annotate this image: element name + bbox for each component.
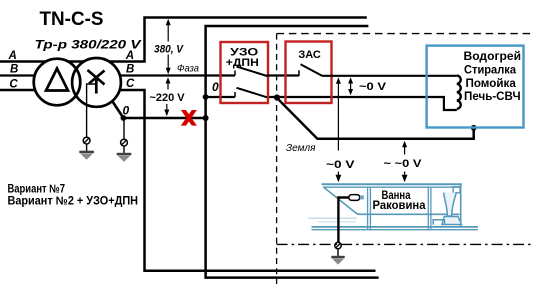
wire bonding from faucet down to earth [338, 198, 349, 243]
wire PEN bus: top run, vertical bus, bottom run [206, 26, 379, 278]
svg-text:Раковина: Раковина [373, 200, 427, 212]
ground electrode at transformer neutral [79, 137, 94, 160]
svg-text:380, V: 380, V [154, 43, 185, 55]
switch contact UZO phase pole [234, 71, 236, 76]
svg-text:~0 V: ~0 V [326, 159, 355, 171]
svg-text:Земля: Земля [286, 142, 316, 154]
appliance load box (blue) [427, 46, 524, 128]
svg-text:~ ~0 V: ~ ~0 V [384, 158, 423, 170]
load heater coil [457, 76, 461, 109]
bath tub left slant and bottom [324, 188, 460, 215]
breaker ZAS box [286, 42, 332, 104]
ground electrode at bath [331, 242, 344, 264]
svg-text:Вариант №2 + УЗО+ДПН: Вариант №2 + УЗО+ДПН [8, 195, 139, 207]
node: PE split junction dot [274, 94, 280, 100]
wire from 0 node down to second earth electrode [123, 118, 125, 139]
svg-text:Помойка: Помойка [466, 78, 517, 90]
ground electrode at 0 node [117, 139, 132, 162]
boundary dashed vertical (building entry) [276, 34, 278, 284]
wire transformer neutral to earth electrode [87, 84, 97, 137]
node: junction dot of diagonal and 0 line [121, 115, 127, 121]
drain trap pipe [433, 220, 444, 225]
wire PE conductor: diagonal down, earth run, up to chassis [277, 98, 474, 139]
wire N conductor from bus through UZO to load box [206, 96, 235, 98]
bathroom fixtures drawing (blue) [308, 184, 478, 230]
transformer T1 primary circle (delta) [34, 59, 81, 106]
dimension arrow 220V between phase and 0 [164, 77, 170, 116]
svg-text:Водогрей: Водогрей [464, 51, 522, 63]
breaker UZO+DPN box [221, 42, 269, 103]
boundary dash-dot horizontal bottom [277, 243, 533, 245]
faucet (tap) on bath [349, 195, 360, 201]
svg-text:ЗАС: ЗАС [298, 49, 321, 61]
red X break in PEN conductor [181, 110, 197, 126]
toilet base [442, 217, 462, 225]
wire phase C: left line, down riser and bottom bus [0, 90, 376, 271]
wire phase B (Фаза) from source to UZO left contact [0, 74, 235, 76]
node: junction dot 0 line to PEN bus [203, 115, 209, 121]
wire neutral diagonal from Y winding to 0 node [98, 80, 123, 119]
switch contact ZAS phase pole [298, 70, 300, 76]
dimension arrow 380V between bus A and phase [166, 19, 171, 75]
toilet bowl/pedestal [444, 193, 457, 217]
svg-text:Фаза: Фаза [177, 62, 199, 74]
svg-text:C: C [9, 78, 18, 90]
light shading line under tub [308, 217, 357, 219]
svg-text:B: B [10, 64, 18, 76]
node: PE to appliance chassis dot [471, 125, 477, 131]
switch contact UZO neutral pole [234, 92, 236, 97]
svg-text:A: A [8, 50, 17, 62]
faucet spout (blue) [360, 195, 364, 199]
transformer T1 delta winding symbol [46, 69, 68, 91]
svg-text:TN-C-S: TN-C-S [40, 8, 104, 30]
dimension arrow phase to bath [336, 77, 342, 182]
bath right edge [460, 185, 462, 227]
svg-text:0: 0 [212, 80, 219, 94]
svg-text:~220 V: ~220 V [150, 92, 186, 104]
svg-text:Стиралка: Стиралка [464, 64, 517, 76]
svg-text:B: B [126, 63, 134, 75]
dimension arrow between phase and N after ZAS [348, 77, 353, 95]
svg-text:+ДПН: +ДПН [226, 57, 259, 69]
svg-text:0: 0 [123, 103, 130, 117]
floor lines [312, 226, 478, 228]
wire phase A: left line, riser and top bus [0, 18, 367, 62]
bath rim top lines [322, 183, 462, 185]
transformer T1 secondary circle (wye) [72, 58, 121, 107]
transformer T1 circle masks [34, 59, 81, 106]
boundary dashed horizontal top [277, 33, 533, 35]
svg-text:A: A [125, 50, 134, 62]
svg-text:Вариант №7: Вариант №7 [8, 183, 66, 195]
wire 0 (PEN) from transformer to bus [123, 117, 205, 119]
toilet tank [453, 187, 460, 193]
node: junction dot N branch on PEN bus [203, 94, 209, 100]
svg-text:Печь-СВЧ: Печь-СВЧ [464, 91, 521, 103]
dimension arrow earth to bath [402, 141, 408, 183]
transformer T1 wye winding symbol [88, 70, 105, 94]
svg-text:C: C [126, 78, 135, 90]
svg-text:~0 V: ~0 V [359, 81, 387, 93]
bath divider double lines [368, 188, 371, 231]
